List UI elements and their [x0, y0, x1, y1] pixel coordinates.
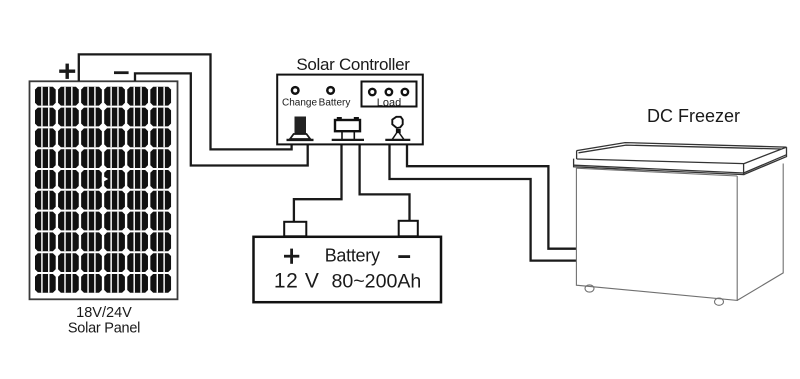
- svg-text:Solar Panel: Solar Panel: [68, 321, 140, 337]
- svg-text:DC Freezer: DC Freezer: [647, 106, 740, 126]
- svg-text:Change: Change: [282, 98, 317, 109]
- svg-text:80~200Ah: 80~200Ah: [331, 271, 421, 293]
- svg-text:12 V: 12 V: [274, 270, 320, 293]
- svg-text:Solar Controller: Solar Controller: [296, 55, 410, 74]
- svg-text:Load: Load: [377, 97, 401, 109]
- svg-text:18V/24V: 18V/24V: [76, 305, 132, 321]
- svg-text:Battery: Battery: [319, 98, 351, 109]
- svg-text:Battery: Battery: [325, 246, 380, 266]
